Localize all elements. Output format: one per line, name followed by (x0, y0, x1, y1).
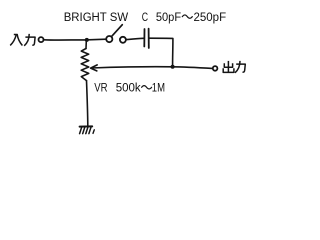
ground hatch 4 (89, 127, 91, 133)
input terminal circle (39, 37, 44, 42)
switch SW left contact circle (106, 36, 112, 42)
svg-text:VR: VR (94, 80, 107, 94)
node label 力 (output kanji 2) (235, 61, 245, 73)
wire capacitor to corner and down to junction J2 (149, 38, 173, 66)
wire switch to capacitor (126, 38, 144, 39)
svg-text:50pF: 50pF (156, 10, 182, 24)
junction dot J1 (85, 38, 89, 42)
svg-text:1M: 1M (152, 80, 165, 94)
label VR value wave dash (142, 86, 152, 89)
wire resistor top lead (85, 41, 87, 49)
resistor VR zigzag (81, 49, 89, 81)
VR wiper arrowhead (91, 65, 98, 71)
ground hatch 2 (83, 127, 85, 133)
output terminal circle (213, 66, 218, 71)
capacitor C right plate (148, 29, 150, 48)
label C value wave dash (182, 15, 192, 18)
node label 力 (input kanji 2) (24, 34, 35, 46)
ground tick (93, 130, 94, 134)
node label 入 (input kanji 1) (10, 35, 22, 46)
junction dot J2 (171, 65, 175, 69)
switch SW lever (112, 25, 123, 37)
svg-text:500k: 500k (116, 80, 142, 94)
node label 出 (output kanji 1) (223, 61, 234, 73)
wire wiper line to output (91, 67, 212, 69)
switch SW right contact circle (120, 37, 126, 43)
svg-text:C: C (142, 10, 148, 24)
svg-text:250pF: 250pF (194, 10, 227, 24)
ground hatch 1 (80, 127, 82, 133)
wire resistor bottom lead (87, 81, 88, 126)
svg-text:BRIGHT SW: BRIGHT SW (64, 10, 129, 24)
wire input terminal to junction (44, 39, 85, 41)
wire junction to switch (89, 38, 106, 41)
ground bar (80, 125, 93, 127)
ground hatch 3 (86, 127, 88, 133)
capacitor C left plate (143, 29, 145, 47)
